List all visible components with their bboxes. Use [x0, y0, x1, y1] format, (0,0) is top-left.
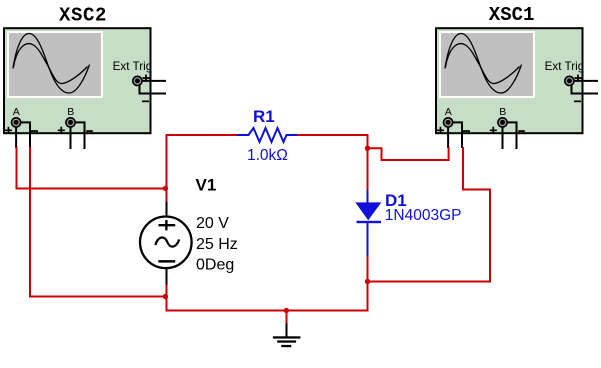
svg-text:20 V: 20 V — [196, 215, 229, 232]
svg-text:XSC1: XSC1 — [489, 4, 535, 26]
svg-text:XSC2: XSC2 — [59, 4, 107, 26]
svg-text:1.0kΩ: 1.0kΩ — [247, 147, 288, 164]
svg-text:1N4003GP: 1N4003GP — [385, 207, 462, 224]
svg-text:0Deg: 0Deg — [196, 257, 234, 274]
svg-text:V1: V1 — [196, 176, 217, 195]
svg-text:25 Hz: 25 Hz — [196, 236, 238, 253]
svg-text:R1: R1 — [253, 107, 275, 126]
